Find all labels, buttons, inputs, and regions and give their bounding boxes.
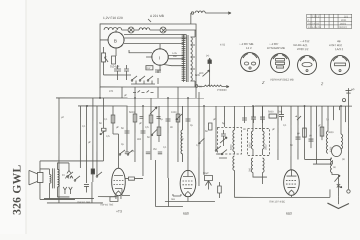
capacitor on v188 [185,119,190,121]
svg-text:µF: µF [139,122,142,125]
wire v311 [310,106,312,148]
HT bus upper [56,97,204,99]
T3 bottom wire [234,189,330,197]
trimmer resistor on v103 [101,128,106,131]
heater feed wire [56,98,59,199]
IF2 lower leads [253,172,267,184]
tap arrow on dropper [105,57,109,62]
wire v135 [134,98,136,162]
IF can 2 [247,129,269,156]
svg-text:0,04µF: 0,04µF [110,64,120,68]
IF1 winding lead [233,106,235,155]
box feed wires [100,87,196,106]
wire v159 [158,106,160,142]
wiper arrow pot [203,70,210,76]
IF1 trimmer arrow [220,137,227,143]
svg-text:ITW 4Ω 2BE: ITW 4Ω 2BE [77,201,91,204]
svg-text:321: 321 [344,15,349,18]
svg-text:12 V: 12 V [246,46,252,50]
svg-text:1 2 3 4 5 2 6: 1 2 3 4 5 2 6 [308,26,322,29]
resistor on v159 [157,127,161,136]
wire v328 [332,106,334,120]
svg-text:200: 200 [278,111,283,114]
cap row three c [158,152,162,154]
contact row under box [133,90,154,92]
bottom rail b [47,182,103,203]
wire v204 [203,106,205,175]
svg-text:B: B [114,38,117,43]
capacitor on v127 [124,131,129,133]
capacitor on v168 [165,119,170,121]
lower choke winding [330,158,332,172]
mains switch contacts [132,76,153,80]
electrolytic block on v92 [91,169,94,174]
svg-text:PHONO: PHONO [217,89,227,92]
wire v291 [290,106,292,170]
cap on v298 [295,137,300,139]
dropper resistor R in box [102,53,106,62]
output pentode T2 envelope [180,170,196,196]
lamp circle right [347,106,349,189]
resistor on v151 [149,115,153,123]
T2 bottom bus [165,194,215,202]
grid cap T1 [113,134,119,169]
svg-text:ITW 4Ω 7BE: ITW 4Ω 7BE [100,203,114,206]
wire v224 [223,106,225,127]
IF1 tuning cap [221,130,226,146]
svg-text:0,1: 0,1 [283,124,287,127]
svg-text:20/21: 20/21 [340,22,347,25]
switch bus [131,80,155,84]
svg-text:470: 470 [109,90,114,93]
svg-text:mA: mA [171,198,175,201]
capacitor on v87 [84,184,89,192]
resistor v219 [218,182,220,186]
svg-text:µF: µF [318,124,321,127]
cathode resistor under T1 [110,197,118,202]
wire v316 [315,106,317,164]
valve socket diagram 2 [271,54,290,73]
wire v178 [177,106,179,162]
smoothing capacitor C [114,65,121,75]
svg-text:µF: µF [88,141,91,144]
T1 grid [113,179,123,181]
cap beside r151 [156,116,160,118]
IF2 leads [253,106,263,155]
T3 cathode [287,187,295,189]
loudspeaker cone [29,170,38,185]
AVC pot arrow mid [150,107,157,114]
wire v80 [79,106,81,168]
heater fork b [63,187,67,194]
svg-text:0000: 0000 [264,144,267,150]
T1 heater [116,191,121,199]
cap row three b [146,152,150,154]
svg-text:(+): (+) [206,55,209,58]
heater fork c [69,187,73,194]
wire [155,70,161,84]
svg-text:0,1: 0,1 [196,144,200,147]
svg-text:Z: Z [261,80,265,85]
resistor 5000 right [269,114,277,118]
speaker frame wires [40,161,104,200]
svg-text:3000: 3000 [328,131,334,134]
svg-text:300: 300 [137,138,142,141]
aerial choke coil [195,11,205,13]
svg-text:DYN/AMP MB: DYN/AMP MB [267,46,285,50]
svg-text:1000: 1000 [171,111,177,114]
T1 anode [114,174,123,176]
wire v298 [297,106,299,160]
aerial feed wire [190,13,192,24]
trimmer x at v178 [176,114,182,120]
svg-text:0,1: 0,1 [104,118,108,121]
power-unit enclosure box [100,24,196,87]
bottom rail a [44,197,94,199]
output choke winding a [326,131,328,153]
svg-text:1A/3 2: 1A/3 2 [335,47,344,51]
svg-text:1,2V F10 C20: 1,2V F10 C20 [103,16,123,20]
wire v97 [96,106,98,176]
switch contact on v216 [216,146,221,154]
resistor on v304 [303,128,307,137]
wire [166,29,196,31]
field coil zigzag [65,176,73,179]
trimmer caps row labels [251,106,256,123]
wire v278 [277,106,279,160]
lower choke lead [332,172,339,181]
resistor in box [112,56,116,64]
choke leads [339,106,345,134]
svg-text:6∆3: 6∆3 [286,212,292,216]
svg-text:2C30 1/2: 2C30 1/2 [297,47,309,51]
switch diagonal mid3 [198,138,204,144]
band switch under IF1 [219,150,227,159]
svg-text:I: I [159,55,160,60]
electrolytic can on v204 [204,176,212,181]
IF2 winding a [251,131,253,149]
block below valve I [146,66,153,70]
valve I [152,49,168,65]
transformer core [187,35,188,82]
pointer to coil [148,19,151,22]
pickup wire with squiggle [198,85,229,88]
svg-text:5000: 5000 [268,111,274,114]
AVC feed arrow [208,58,210,86]
T2 heater [185,192,190,197]
transformer top leads [40,163,69,170]
svg-text:a/b: a/b [351,88,355,91]
aerial terminal [191,12,193,14]
wire v199 [198,92,200,186]
T3 anode [286,170,296,176]
wire v143 [142,106,144,176]
svg-text:VERKAUFSBEZ MB: VERKAUFSBEZ MB [270,79,294,82]
mains transformer primary winding [182,35,186,81]
IF can 1 [217,128,241,155]
dial lamp L1 [128,27,134,33]
wire v92 [92,98,94,169]
wire [150,29,160,31]
cap right of resistor [279,106,284,121]
svg-text:2M: 2M [153,148,156,151]
pot tap arrow right [334,175,340,182]
IF2 winding b [262,131,264,149]
svg-text:0,5: 0,5 [106,135,110,138]
wire v216 [215,106,217,150]
svg-text:+T3: +T3 [116,209,122,213]
triode-pentode T1 envelope [112,168,126,196]
wire v151 [150,98,152,160]
svg-text:µF: µF [124,94,127,97]
aerial line to arrow [205,12,231,14]
cap row three a [125,152,129,154]
output choke winding b [341,134,343,149]
svg-text:5000: 5000 [230,144,233,150]
rectifier valve B [108,32,124,48]
switch contact lower left [97,172,102,176]
T1 bottom lead [98,195,115,196]
dial lamp L2 [160,27,166,33]
T2 cathode [184,188,192,190]
junction dots on buses [99,97,101,99]
valve socket diagram 1 [241,53,260,72]
T2 anode [183,171,193,177]
rail link left [305,158,333,165]
wire mesh lower box [104,75,132,80]
svg-text:20/2021: 20/2021 [339,26,348,29]
extra switch contacts lower left [68,172,80,180]
svg-text:50µF: 50µF [203,172,209,175]
svg-text:0,1: 0,1 [163,146,167,149]
svg-text:A 221 MB: A 221 MB [150,14,164,18]
heater fork a [67,163,71,174]
T1 screen grid [113,183,123,185]
resistor on v322 [320,127,324,136]
ground V [337,196,339,204]
T1 side resistor [128,177,134,180]
T3 heater [289,190,294,195]
svg-text:µF: µF [116,126,119,129]
filament dropper coil [104,27,122,30]
electrolytic block pot [208,60,212,64]
cap c2 [260,106,265,123]
svg-text:0,1: 0,1 [82,125,86,128]
barretter coil [139,28,150,30]
output transformer secondary [57,169,59,187]
tube data table [307,14,352,28]
mains transformer secondary winding [191,37,193,81]
svg-text:µF: µF [181,138,184,141]
wire v333 [327,106,329,131]
valve socket diagram 3 [298,56,317,75]
rectifier T3 envelope [284,170,300,196]
switch diagonal mid2 [152,129,158,135]
wire v103 [102,98,104,128]
svg-text:000: 000 [248,167,251,172]
resistor on v135 [133,114,137,122]
AF choke winding [181,106,183,162]
transformer bottom leads [57,187,69,197]
IF1 lower winding [233,156,235,170]
cap on v311 [308,139,313,141]
cap beside r135 [139,116,143,118]
svg-text:µF: µF [272,128,275,131]
heater drop wires [155,160,183,207]
T3 grid [286,180,297,182]
wires from valve B [100,30,187,56]
svg-text:GW: GW [195,73,200,77]
contact pair mid [120,150,133,154]
wire v127 [126,106,128,152]
IF2 lower winding a [251,158,253,172]
wire v188 grid T2 [187,98,189,170]
winding taps [191,30,196,87]
capacitor on v143 [140,131,145,133]
cap on v244 [242,118,247,120]
svg-text:2 2 0 2: 2 2 0 2 [312,15,320,18]
wires from valve I [129,50,184,66]
pickup terminal [195,85,198,88]
resistor mid r1 [111,115,115,123]
svg-text:326 GWL: 326 GWL [11,165,23,215]
IF2 lower winding b [262,158,264,172]
svg-text:6∆0: 6∆0 [183,212,189,216]
wire v87 [85,106,87,183]
svg-text:4 02: 4 02 [220,44,226,47]
svg-text:5000: 5000 [129,111,135,114]
T2 grids [182,180,193,182]
wire v244 [243,106,245,123]
IF1 winding [233,130,235,152]
wire v168 [167,98,169,178]
capacitor pair [124,65,129,75]
aerial isolating symbol right [346,88,352,106]
wire [134,29,139,31]
wire v304 [303,106,305,159]
valve socket diagram 4 [331,56,350,75]
resistor pair near pot [208,123,212,130]
wire [103,47,105,75]
T1 cathode [115,188,130,195]
chassis bus [78,105,352,107]
svg-text:ITW 107 4 BE: ITW 107 4 BE [269,201,285,204]
resistor x mark [337,181,340,196]
wire v113 [112,106,114,134]
wire v322 [321,106,323,140]
junction dot [340,186,342,188]
choke core ellipse [331,146,341,157]
component row small right: cap a [295,116,301,120]
svg-text:2 6 2 4 2 6: 2 6 2 4 2 6 [308,22,320,25]
loudspeaker driver [37,172,43,182]
resistor on v178 [176,114,180,122]
output transformer core [52,168,54,188]
output transformer primary [49,174,51,183]
svg-text:0,5: 0,5 [145,126,149,129]
wire [122,29,128,31]
